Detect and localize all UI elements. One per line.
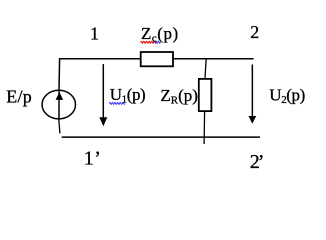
svg-text:E/p: E/p — [6, 87, 32, 107]
svg-text:Zc(p): Zc(p) — [141, 24, 179, 45]
svg-text:1: 1 — [90, 24, 99, 44]
svg-text:U2(p): U2(p) — [269, 86, 305, 107]
svg-text:2’: 2’ — [250, 151, 265, 173]
svg-text:ZR(p): ZR(p) — [160, 86, 198, 107]
svg-text:U1(p): U1(p) — [110, 85, 146, 106]
svg-text:1’: 1’ — [84, 147, 101, 169]
svg-text:2: 2 — [250, 22, 259, 42]
